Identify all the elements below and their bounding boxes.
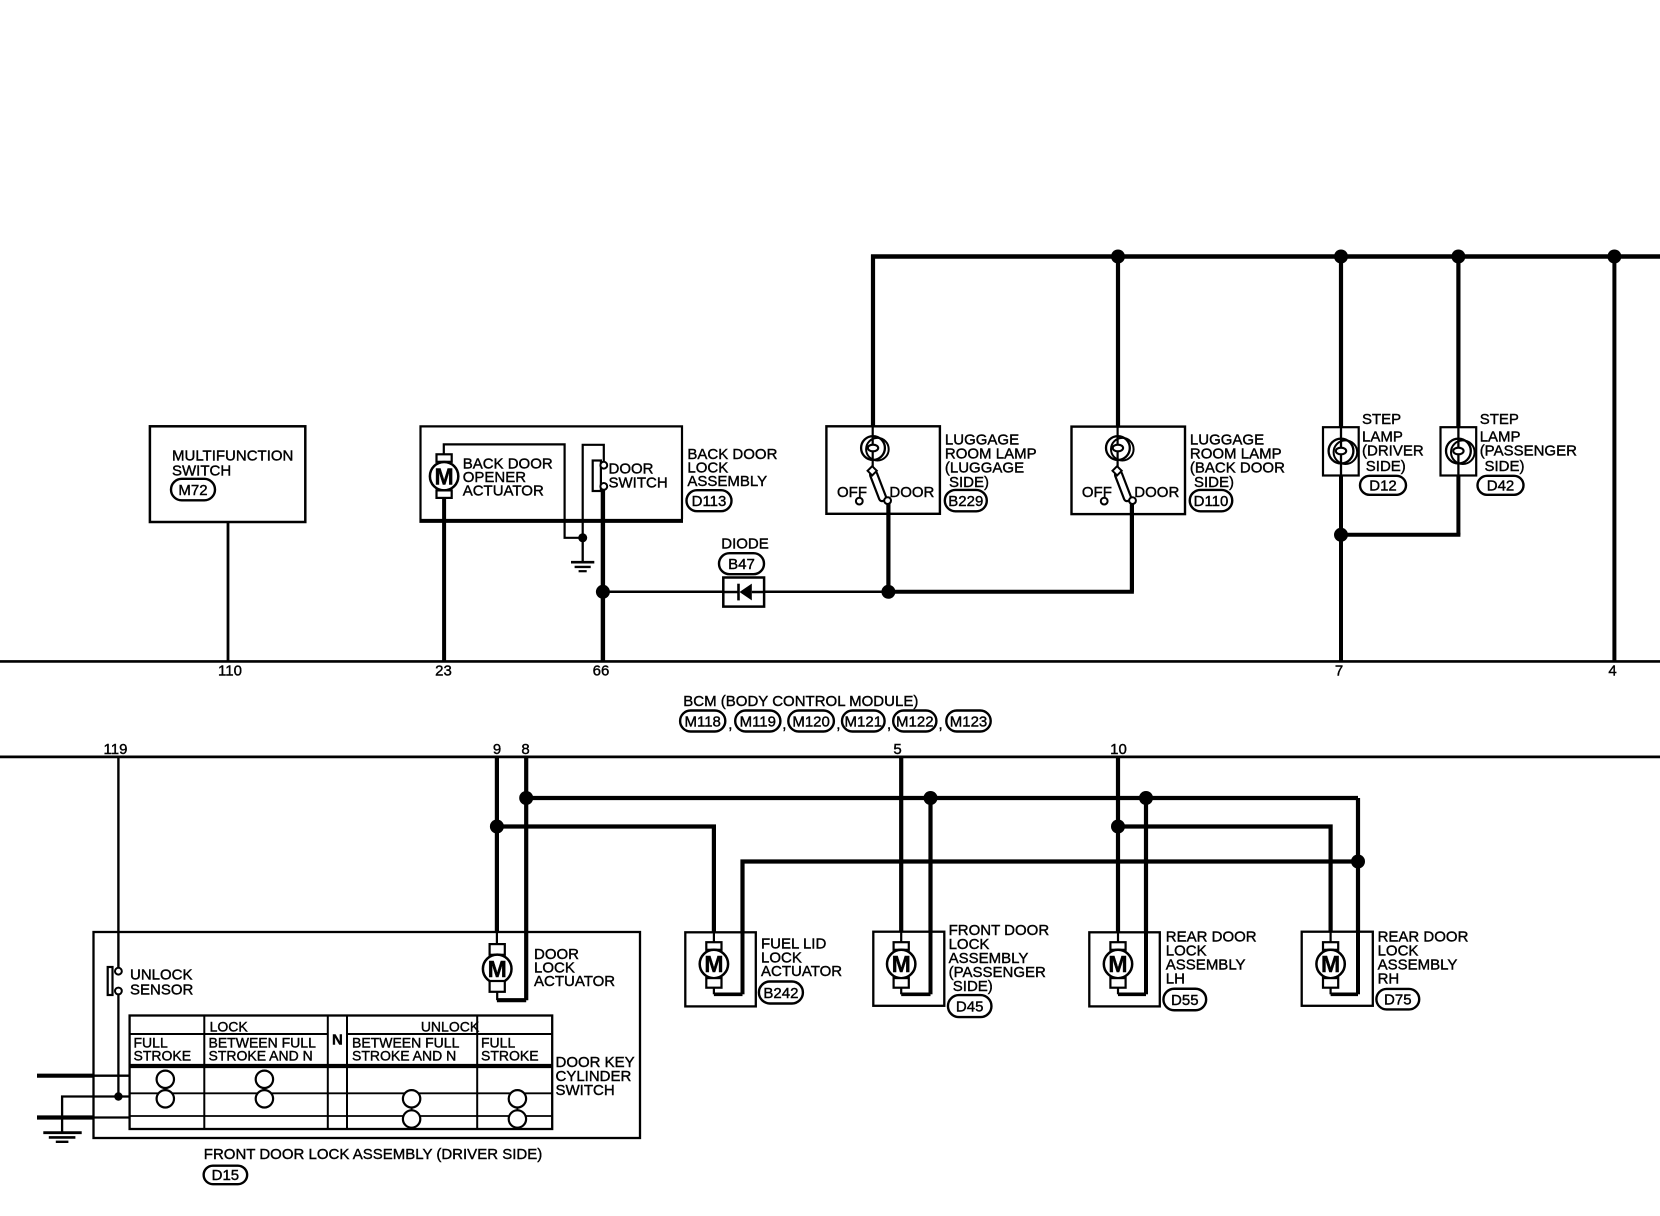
switch contacts unlock between bbox=[403, 1090, 420, 1107]
connector D42 bbox=[1478, 476, 1524, 495]
svg-text:DIODE: DIODE bbox=[721, 535, 769, 552]
svg-text:STROKE AND N: STROKE AND N bbox=[352, 1047, 456, 1063]
wire to BCM pin 4 bbox=[1612, 257, 1616, 662]
connector D113 bbox=[687, 490, 732, 511]
wire feed to step lamp D42 bbox=[1456, 257, 1460, 428]
svg-text:B229: B229 bbox=[948, 493, 983, 510]
bulb B229 bbox=[861, 436, 885, 460]
table row separators bbox=[130, 1092, 553, 1094]
svg-text:7: 7 bbox=[1335, 663, 1343, 680]
svg-text:9: 9 bbox=[493, 741, 501, 758]
svg-text:UNLOCK: UNLOCK bbox=[421, 1019, 480, 1035]
wire feed to step lamp D12 bbox=[1339, 257, 1343, 428]
svg-text:,: , bbox=[887, 716, 891, 733]
svg-text:SENSOR: SENSOR bbox=[130, 981, 194, 998]
node junction sensor/ground/table bbox=[114, 1092, 122, 1100]
fuel lid lock actuator box bbox=[685, 932, 756, 1006]
bulb D42 bbox=[1446, 439, 1471, 464]
svg-text:B242: B242 bbox=[763, 985, 798, 1002]
svg-text:8: 8 bbox=[521, 741, 529, 758]
door lock actuator motor bbox=[490, 944, 505, 955]
wire feed to luggage room lamp B229 bbox=[871, 255, 875, 427]
connector D55 bbox=[1163, 989, 1206, 1011]
motor D75 bbox=[1323, 942, 1338, 950]
wire door lock actuator bottom hook bbox=[497, 998, 526, 1002]
door switch bbox=[593, 461, 601, 492]
back door lock assembly D113 box bbox=[421, 426, 683, 519]
svg-text:66: 66 bbox=[593, 663, 610, 680]
svg-text:SWITCH: SWITCH bbox=[556, 1082, 615, 1099]
svg-text:D75: D75 bbox=[1384, 992, 1412, 1009]
svg-text:OFF: OFF bbox=[1082, 484, 1112, 501]
svg-text:M72: M72 bbox=[178, 482, 207, 499]
node junction y798 / D55 right bbox=[1139, 791, 1153, 805]
svg-text:D15: D15 bbox=[212, 1167, 240, 1184]
wire D75 motor hook bbox=[1329, 988, 1331, 995]
wire B229/D110 output link bbox=[888, 590, 1134, 594]
node junction y798 / D45 right bbox=[924, 791, 938, 805]
diode B47 bbox=[723, 578, 764, 607]
wire pin 119 to unlock sensor bbox=[117, 757, 119, 968]
connector M118 bbox=[680, 711, 725, 732]
node junction pin 9 / unlock feed line bbox=[490, 820, 504, 834]
svg-text:110: 110 bbox=[218, 663, 242, 680]
connector M123 bbox=[946, 711, 990, 732]
node junction ground tie bbox=[578, 533, 587, 542]
wire stub row1 (lock output) bbox=[37, 1074, 94, 1078]
connector B47 bbox=[719, 553, 764, 574]
motor fuel lid lock actuator bbox=[706, 942, 721, 950]
connector M119 bbox=[735, 711, 780, 732]
wire D55 motor hook bbox=[1117, 988, 1119, 995]
svg-text:SIDE): SIDE) bbox=[1485, 458, 1525, 475]
svg-text:D42: D42 bbox=[1487, 478, 1515, 495]
connector D45 bbox=[948, 995, 992, 1017]
svg-text:STROKE AND N: STROKE AND N bbox=[209, 1047, 313, 1063]
wire fuel lid motor hook bbox=[713, 988, 715, 995]
svg-text:4: 4 bbox=[1608, 663, 1616, 680]
luggage room lamp (back door side) D110 box bbox=[1072, 427, 1186, 514]
connector B229 bbox=[945, 490, 987, 511]
wire pin 8 down bbox=[524, 757, 528, 1000]
wire back door opener actuator return loop bbox=[444, 444, 565, 521]
connector B242 bbox=[759, 982, 803, 1004]
connector M122 bbox=[893, 711, 936, 732]
wire to ground branch bbox=[62, 1097, 118, 1132]
wire door switch upper terminal to ground bbox=[583, 445, 604, 538]
svg-text:5: 5 bbox=[893, 741, 901, 758]
svg-text:RH: RH bbox=[1378, 971, 1400, 988]
wire D110 bulb feed bbox=[1116, 427, 1118, 468]
wire pin 9 inside box to motor bbox=[496, 932, 498, 944]
wire B229 bulb feed bbox=[872, 426, 874, 467]
lamp switch lever D110 bbox=[1114, 470, 1132, 502]
svg-text:SIDE): SIDE) bbox=[949, 474, 989, 491]
wire D42 output down bbox=[1456, 476, 1460, 535]
connector D75 bbox=[1376, 989, 1419, 1010]
ground (back door) bbox=[582, 538, 584, 562]
rear door lock assembly LH box bbox=[1089, 932, 1160, 1006]
svg-text:D55: D55 bbox=[1171, 992, 1199, 1009]
node junction diode line / B229 output bbox=[881, 585, 895, 599]
unlock sensor bbox=[108, 967, 113, 995]
wire top power bus bbox=[871, 254, 1660, 258]
contact OFF B229 bbox=[856, 498, 863, 505]
wire D42 to D12 tie bbox=[1341, 533, 1458, 535]
svg-text:N: N bbox=[332, 1031, 343, 1048]
svg-text:M: M bbox=[488, 956, 507, 982]
connector D110 bbox=[1190, 490, 1233, 511]
svg-text:M123: M123 bbox=[950, 713, 988, 730]
svg-text:M: M bbox=[1108, 951, 1127, 977]
connector M121 bbox=[842, 711, 885, 732]
front door lock assembly (passenger side) box bbox=[873, 932, 944, 1006]
contact DOOR B229 bbox=[884, 497, 891, 504]
node junction top bus / BCM pin 4 feed bbox=[1607, 250, 1621, 264]
svg-text:,: , bbox=[939, 716, 943, 733]
svg-text:M119: M119 bbox=[740, 713, 776, 730]
svg-text:DOOR: DOOR bbox=[1134, 484, 1179, 501]
svg-text:SWITCH: SWITCH bbox=[172, 463, 231, 480]
svg-text:,: , bbox=[836, 716, 840, 733]
motor D45 bbox=[894, 942, 909, 950]
motor D55 bbox=[1110, 942, 1125, 950]
svg-text:M120: M120 bbox=[792, 713, 830, 730]
wire B229 output to diode line bbox=[886, 504, 890, 592]
BCM upper edge (bus) bbox=[0, 660, 1660, 663]
svg-text:SWITCH: SWITCH bbox=[609, 474, 668, 491]
svg-text:STEP: STEP bbox=[1362, 411, 1401, 428]
svg-text:ASSEMBLY: ASSEMBLY bbox=[687, 473, 767, 490]
bulb D110 bbox=[1106, 436, 1130, 460]
svg-text:D110: D110 bbox=[1194, 493, 1229, 510]
svg-text:M: M bbox=[892, 951, 911, 977]
wire pin 10 to D55 bbox=[1116, 757, 1120, 932]
switch contacts lock full stroke bbox=[157, 1071, 174, 1088]
svg-text:M: M bbox=[435, 463, 454, 489]
svg-text:STROKE: STROKE bbox=[134, 1047, 192, 1063]
switch contacts lock between bbox=[256, 1071, 273, 1088]
switch contacts unlock full stroke bbox=[509, 1090, 526, 1107]
wire diode line bbox=[603, 591, 889, 594]
wire lock feed line y798 bbox=[526, 796, 1358, 800]
svg-text:(PASSENGER: (PASSENGER bbox=[1480, 442, 1577, 459]
wire D55 right pin bbox=[1144, 798, 1148, 932]
svg-text:ACTUATOR: ACTUATOR bbox=[463, 483, 544, 500]
svg-text:LH: LH bbox=[1166, 971, 1185, 988]
wire D45 right pin bbox=[928, 798, 932, 932]
table common thick line bbox=[130, 1064, 553, 1068]
svg-text:B47: B47 bbox=[728, 556, 755, 573]
node junction pin 8 / lock feed line bbox=[519, 791, 533, 805]
svg-text:SIDE): SIDE) bbox=[1194, 474, 1234, 491]
svg-text:BCM (BODY CONTROL MODULE): BCM (BODY CONTROL MODULE) bbox=[683, 693, 918, 710]
wire pin 5 to D45 bbox=[899, 757, 903, 932]
motor back door opener actuator bbox=[437, 454, 452, 462]
node junction top bus / D12 feed bbox=[1334, 250, 1348, 264]
wire fuel lid actuator right to return line y861 bbox=[743, 862, 1359, 933]
rear door lock assembly RH box bbox=[1302, 932, 1373, 1006]
multifunction switch M72 bbox=[150, 426, 305, 522]
svg-text:(DRIVER: (DRIVER bbox=[1362, 442, 1424, 459]
svg-text:D113: D113 bbox=[692, 493, 727, 510]
step lamp (driver side) D12 box bbox=[1323, 427, 1359, 475]
svg-text:M118: M118 bbox=[684, 713, 720, 730]
wire through D12 bbox=[1340, 427, 1342, 475]
svg-text:FRONT DOOR LOCK ASSEMBLY (DRIV: FRONT DOOR LOCK ASSEMBLY (DRIVER SIDE) bbox=[204, 1146, 542, 1163]
step lamp (passenger side) D42 box bbox=[1441, 427, 1477, 475]
svg-text:,: , bbox=[728, 716, 732, 733]
wire pin 66: door switch to BCM bbox=[601, 490, 605, 662]
door key cylinder switch table bbox=[130, 1016, 553, 1130]
wire pin 9 down bbox=[495, 757, 499, 932]
wire unlock sensor to table row 2 bbox=[117, 994, 119, 1096]
node junction top bus / D110 feed bbox=[1111, 250, 1125, 264]
wire D45 motor hook bbox=[900, 988, 902, 995]
wire unlock feed line to fuel lid actuator bbox=[497, 827, 714, 933]
lamp switch lever B229 bbox=[869, 470, 887, 502]
svg-text:OFF: OFF bbox=[837, 484, 867, 501]
svg-text:M121: M121 bbox=[845, 713, 883, 730]
wire D110 output to diode line bbox=[1130, 504, 1134, 592]
svg-text:M: M bbox=[1321, 951, 1340, 977]
node junction pin 10 / D75 feed line bbox=[1111, 820, 1125, 834]
svg-text:LOCK: LOCK bbox=[210, 1019, 249, 1035]
contact OFF D110 bbox=[1101, 498, 1108, 505]
BCM lower edge (bus) bbox=[0, 756, 1660, 759]
bulb D12 bbox=[1329, 439, 1354, 464]
svg-text:DOOR: DOOR bbox=[889, 484, 934, 501]
svg-text:SIDE): SIDE) bbox=[953, 978, 993, 995]
contact DOOR D110 bbox=[1129, 497, 1136, 504]
svg-text:119: 119 bbox=[104, 741, 128, 758]
svg-text:ACTUATOR: ACTUATOR bbox=[761, 963, 842, 980]
svg-text:10: 10 bbox=[1110, 741, 1127, 758]
node junction pin66 / diode line bbox=[596, 585, 610, 599]
svg-text:M122: M122 bbox=[896, 713, 934, 730]
node junction D12/D42 tie bbox=[1334, 528, 1348, 542]
connector D12 bbox=[1360, 476, 1406, 495]
luggage room lamp (luggage side) B229 box bbox=[826, 426, 940, 514]
wire pin 23: actuator to BCM bbox=[442, 498, 446, 662]
wire M72 to BCM pin 110 bbox=[227, 522, 230, 661]
connector D15 bbox=[204, 1166, 248, 1185]
node junction return line / D75 right bbox=[1351, 855, 1365, 869]
svg-text:M: M bbox=[704, 951, 723, 977]
wire pin10 branch to D75 left bbox=[1118, 827, 1331, 933]
wire y798 corner down to D75 right bbox=[1356, 798, 1360, 932]
svg-text:,: , bbox=[782, 716, 786, 733]
svg-text:SIDE): SIDE) bbox=[1366, 458, 1406, 475]
connector M120 bbox=[788, 711, 834, 732]
wire through D42 bbox=[1457, 427, 1459, 475]
svg-text:23: 23 bbox=[435, 663, 452, 680]
wire feed to luggage room lamp D110 bbox=[1116, 257, 1120, 427]
svg-text:ACTUATOR: ACTUATOR bbox=[534, 973, 615, 990]
svg-text:STEP: STEP bbox=[1480, 411, 1519, 428]
ground (driver door) bbox=[43, 1131, 81, 1134]
svg-text:D12: D12 bbox=[1369, 478, 1397, 495]
wire stub row3 (unlock output) bbox=[37, 1115, 94, 1119]
wire pin 7: step lamps to BCM bbox=[1339, 535, 1343, 662]
svg-text:D45: D45 bbox=[956, 998, 984, 1015]
front door lock assembly (driver side) box bbox=[94, 932, 641, 1138]
node junction top bus / D42 feed bbox=[1451, 250, 1465, 264]
svg-text:STROKE: STROKE bbox=[481, 1047, 539, 1063]
